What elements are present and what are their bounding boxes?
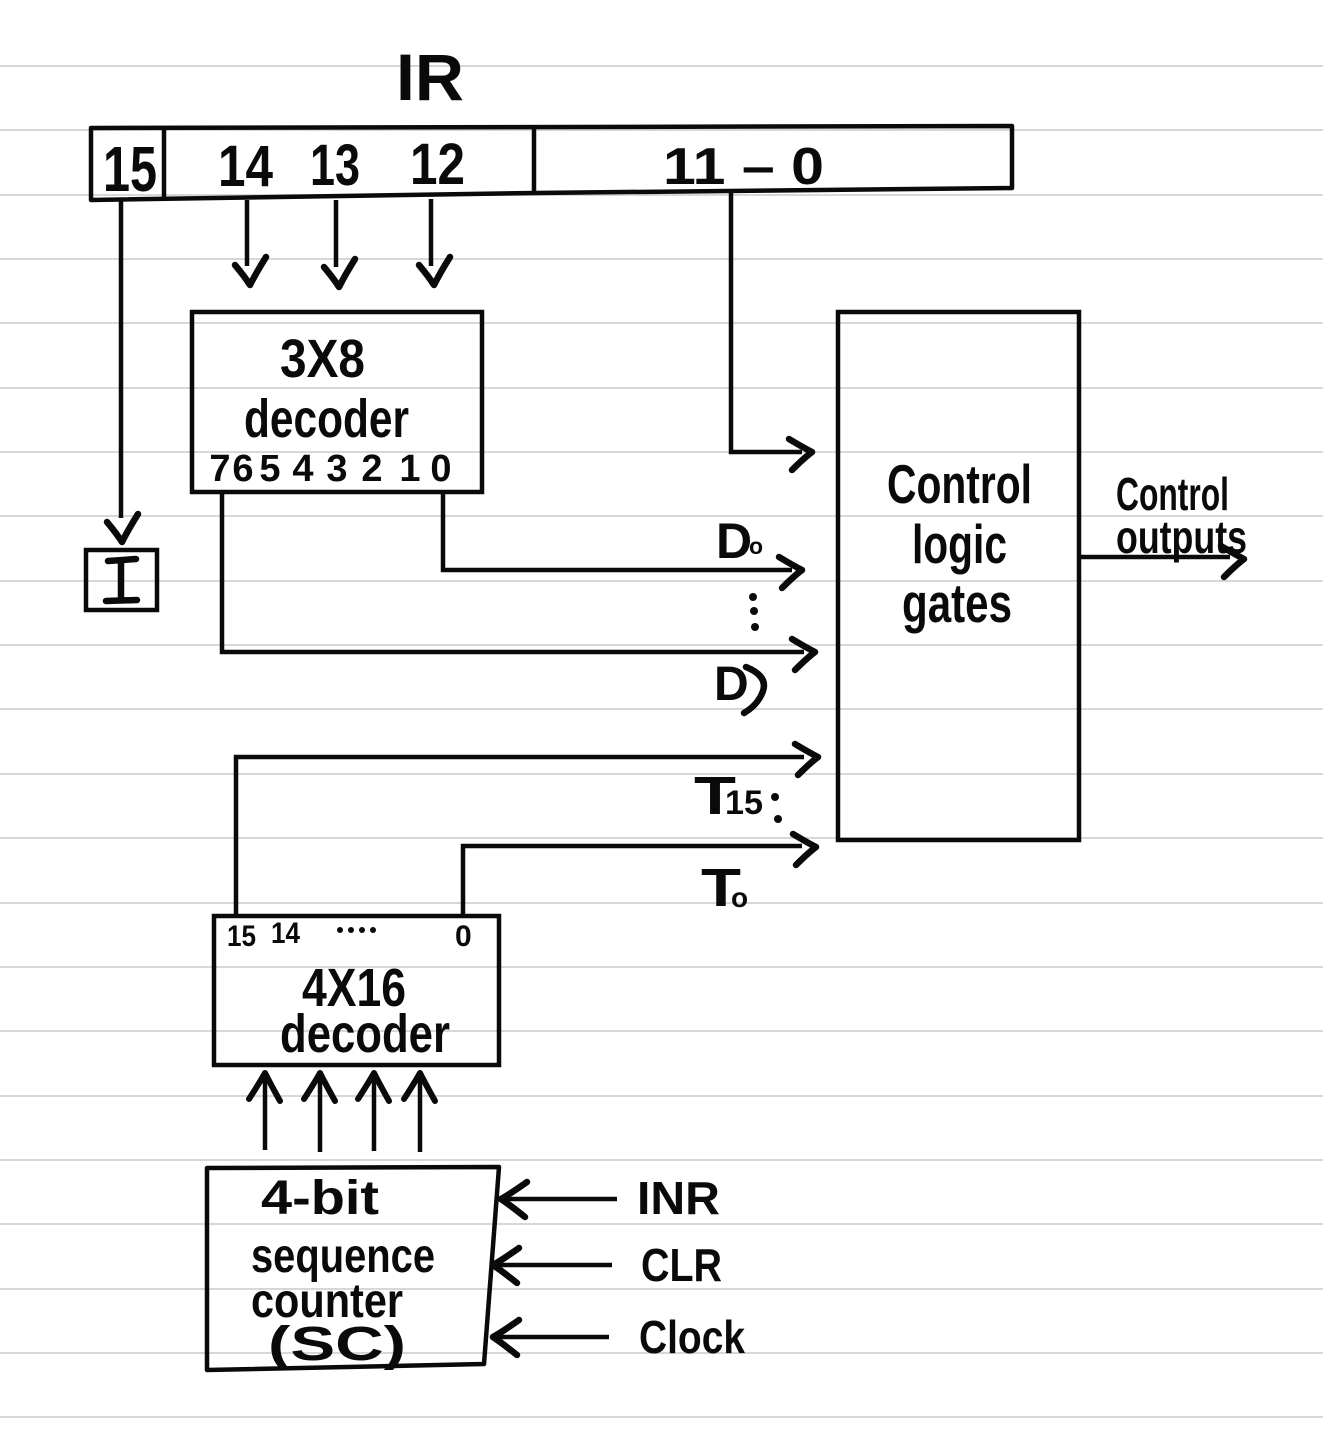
wire bit12 to decoder	[429, 199, 434, 266]
CLR input	[496, 1263, 612, 1268]
svg-text:15: 15	[227, 920, 256, 953]
control outputs wire	[1080, 555, 1230, 560]
svg-text:1: 1	[399, 448, 420, 490]
svg-text:15: 15	[103, 133, 157, 205]
svg-text:o: o	[749, 533, 763, 559]
4-bit sequence counter SC	[207, 1167, 499, 1370]
register IR	[91, 126, 1012, 200]
svg-text:13: 13	[310, 133, 360, 198]
svg-text:CLR: CLR	[641, 1239, 722, 1291]
svg-text:11 – 0: 11 – 0	[663, 138, 824, 196]
svg-text:INR: INR	[637, 1172, 720, 1224]
dots between D0 and D7	[749, 593, 759, 631]
wire bit14 to decoder	[245, 200, 250, 266]
svg-text:7: 7	[209, 448, 230, 490]
wire T0 4x16 decoder pin0 to control logic	[463, 846, 802, 916]
wire T15 4x16 decoder pin15 to control logic	[236, 757, 804, 916]
control logic gates U2	[838, 312, 1079, 840]
svg-text:D: D	[716, 513, 752, 569]
svg-text:Clock: Clock	[639, 1311, 745, 1363]
svg-text:0: 0	[430, 448, 451, 490]
svg-text:(SC): (SC)	[268, 1318, 406, 1371]
svg-text:3X8: 3X8	[280, 329, 365, 389]
wire D7 decoder pin7 to control logic	[222, 492, 804, 652]
svg-text:5: 5	[259, 448, 280, 490]
svg-text:logic: logic	[912, 513, 1007, 575]
wires SC to 4x16 decoder (4 lines)	[265, 1078, 420, 1152]
svg-text:2: 2	[361, 448, 382, 490]
svg-text:3: 3	[326, 448, 347, 490]
svg-text:decoder: decoder	[280, 1004, 450, 1064]
svg-text:decoder: decoder	[244, 389, 409, 449]
wire bit13 to decoder	[334, 200, 339, 267]
svg-text:outputs: outputs	[1116, 511, 1247, 563]
flip-flop I	[86, 550, 157, 610]
svg-text:Control: Control	[887, 453, 1032, 515]
wire bit15 to I	[119, 200, 124, 518]
svg-text:o: o	[731, 882, 748, 913]
wire D0 decoder pin0 to control logic	[443, 492, 792, 570]
svg-text:IR: IR	[396, 40, 464, 114]
INR input	[504, 1197, 617, 1202]
3x8 decoder U1	[192, 312, 482, 492]
clock input	[496, 1335, 609, 1340]
svg-text:12: 12	[410, 132, 465, 197]
svg-text:4-bit: 4-bit	[261, 1172, 379, 1225]
svg-text:6: 6	[232, 448, 253, 490]
wire IR 11-0 to control logic	[731, 193, 802, 452]
4x16 decoder U3	[214, 916, 499, 1065]
svg-text:14: 14	[218, 134, 273, 199]
svg-text:gates: gates	[902, 572, 1012, 634]
svg-text:15: 15	[725, 784, 763, 822]
svg-text:4: 4	[292, 448, 313, 490]
decoder pin labels 7..0	[209, 448, 451, 490]
svg-text:14: 14	[271, 917, 300, 950]
svg-text:0: 0	[455, 920, 472, 953]
